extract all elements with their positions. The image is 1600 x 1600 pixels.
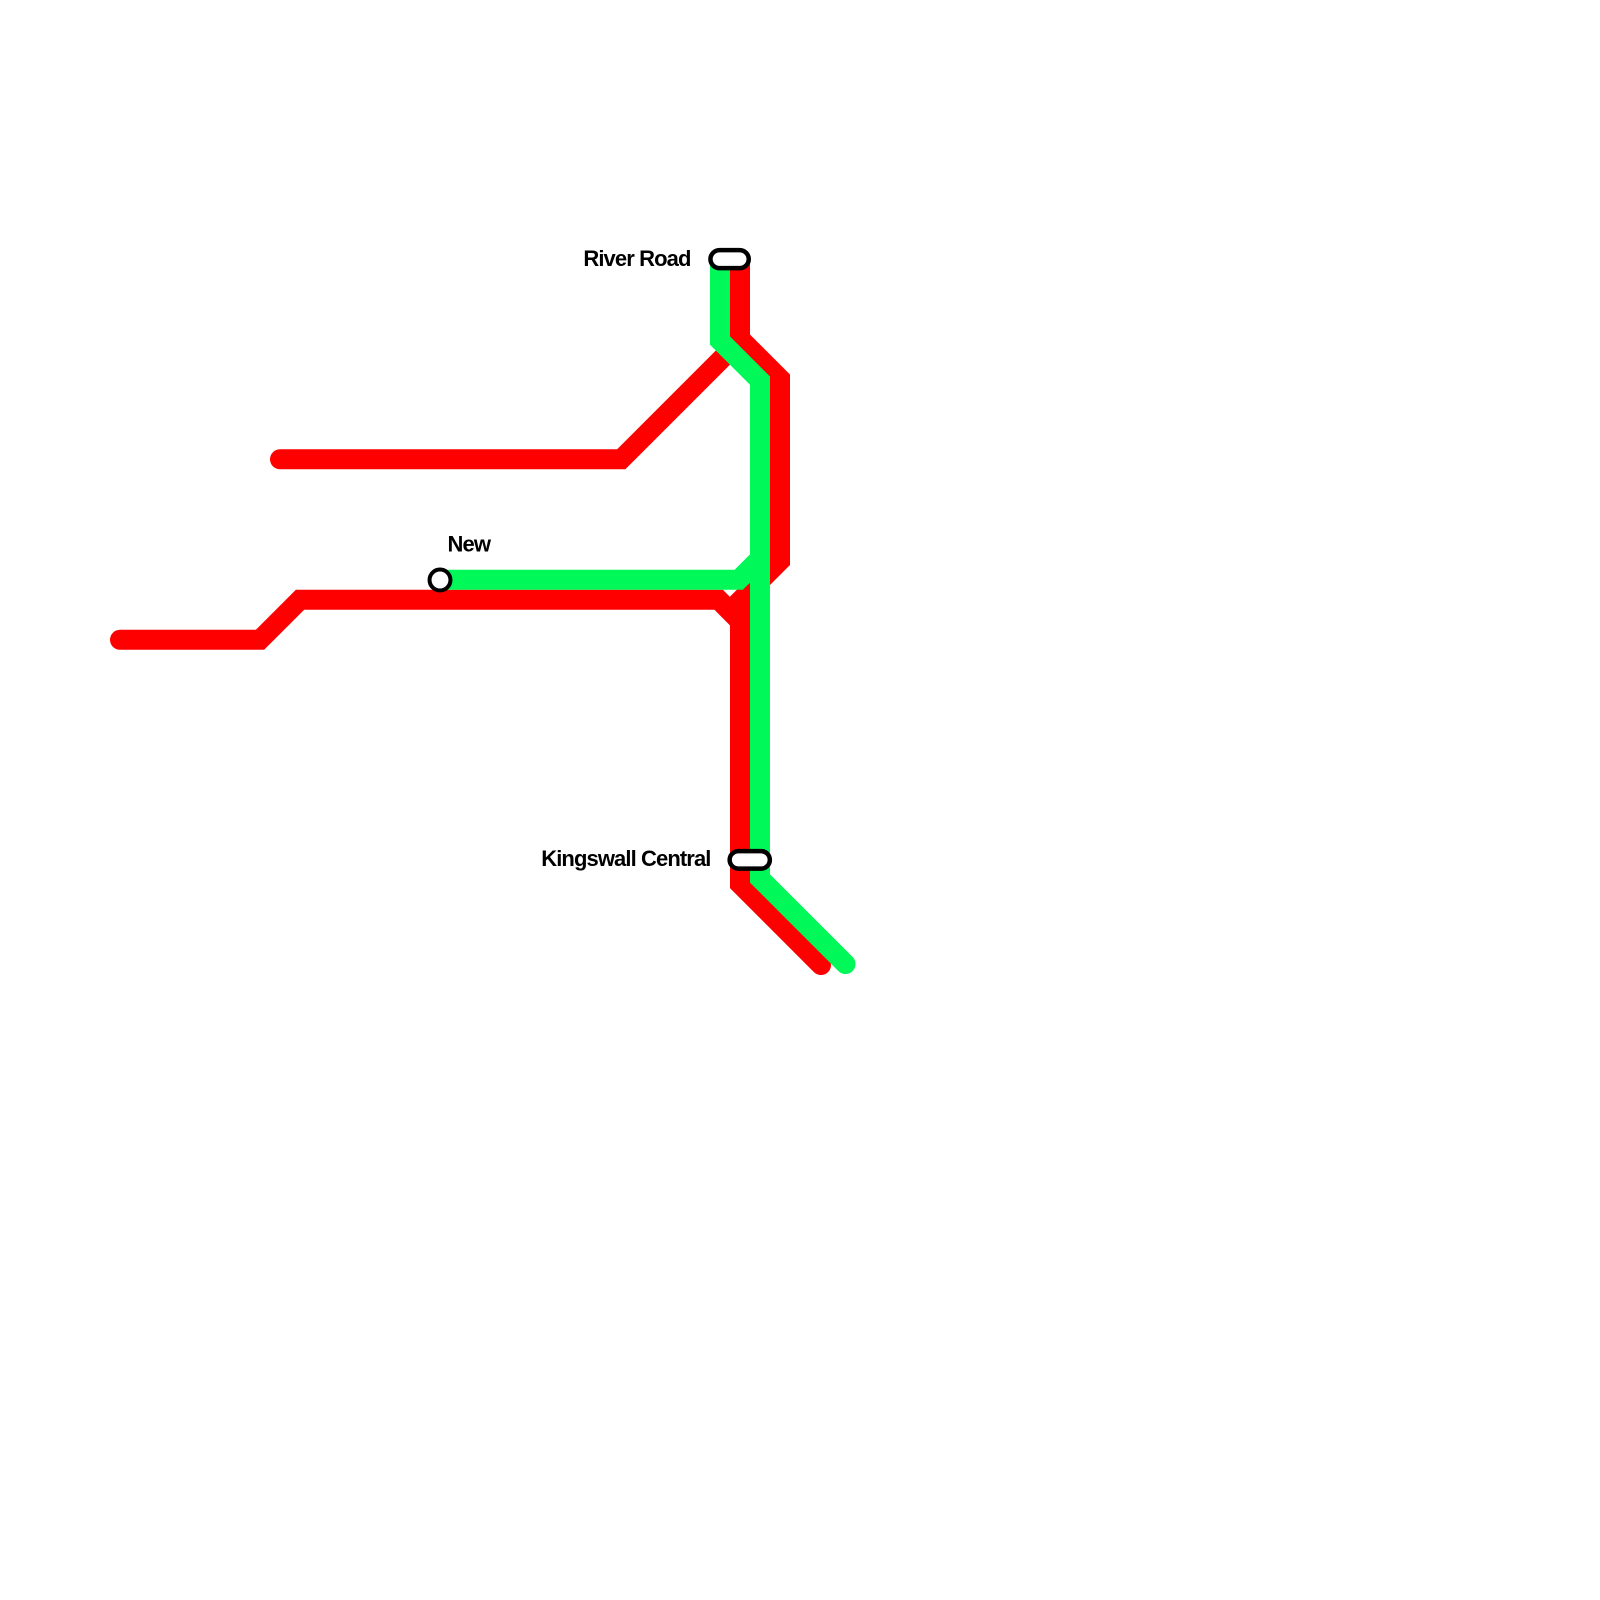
green line: main route River Road to Kingswall Central and beyond [720,259,846,964]
red line: main route River Road to Kingswall Central and beyond [740,259,821,965]
green line: branch from New station [440,557,762,580]
svg-text:River Road: River Road [583,246,690,271]
red line: west branch lower (merges below New junction) [120,600,740,640]
red line: west branch upper (to junction near River Road) [280,341,740,460]
station Kingswall Central: capsule marker [730,851,770,869]
svg-text:New: New [448,531,492,556]
station New: circle marker [430,570,451,591]
svg-text:Kingswall Central: Kingswall Central [541,846,710,871]
station River Road: capsule marker [710,250,748,268]
